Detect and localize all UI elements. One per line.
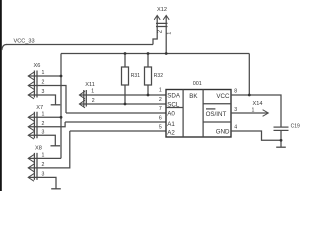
capacitor C19 top plate [274,126,289,128]
svg-text:VCC: VCC [216,93,230,100]
svg-text:X11: X11 [85,82,95,88]
wire X8 pin1 to VCC vertical [28,157,61,159]
junction pin4-C19 ground [280,139,283,142]
wire X8 pin2 to A2 [28,131,70,168]
connector X7 arrow pin3 [28,132,34,140]
svg-text:3: 3 [42,129,45,135]
junction rail2-R32 [147,52,150,55]
svg-text:VCC_33: VCC_33 [14,39,35,45]
wire X7 pin3 to ground [28,135,55,145]
wire VCC vertical distribution [60,54,62,159]
junction SCL-R31 [124,103,127,106]
svg-text:X6: X6 [34,63,41,69]
wire X6 pin2 to A0 [28,86,66,114]
svg-text:7: 7 [159,106,162,112]
connector X7 body bars [34,112,37,139]
connector X8 body bars [34,153,37,180]
svg-text:A0: A0 [167,111,175,118]
svg-text:3: 3 [234,107,237,113]
svg-text:001: 001 [193,81,202,87]
svg-text:R32: R32 [154,73,163,79]
wire X7 pin1 to VCC vertical [28,116,61,118]
svg-text:1: 1 [159,88,162,94]
connector X12 arrow pin1 [163,15,169,19]
wire VCC_33 rail [6,44,153,46]
svg-text:2: 2 [42,121,45,127]
wire VCC rail2 right drop to pin8 [248,54,250,96]
ground symbol 4 [276,146,286,148]
svg-text:8: 8 [234,89,237,95]
IC U1 internal dividers [166,90,231,138]
wire A2 to IC pin5 [70,130,167,132]
resistor R32 [145,67,152,85]
wire C19 bottom lead [280,130,282,147]
connector X8 arrow pin3 [28,174,34,182]
svg-text:SDA: SDA [167,92,181,99]
wire A0 to IC pin7 [66,112,167,114]
wire IC pin3 to X14 [231,112,268,114]
connector X6 arrow pin1 [28,72,34,80]
svg-text:X7: X7 [36,105,43,111]
svg-text:1: 1 [252,107,255,113]
junction rail2-X12pin1 [165,52,168,55]
connector X11 body bars [84,90,87,107]
wire X12 pin1 to VCC rail2 [165,16,167,54]
svg-text:R31: R31 [131,73,140,79]
wire jog rail to X12 pin2 [153,16,157,45]
svg-text:OS/INT: OS/INT [206,111,227,118]
svg-text:2: 2 [92,98,95,104]
svg-text:A2: A2 [167,129,175,136]
wire IC pin8 to C19 top [231,95,281,127]
connector X11 arrow pin1 [79,91,85,99]
wire R32 top lead [147,54,149,68]
svg-text:GND: GND [216,129,230,136]
wire X6 pin3 to ground [28,95,55,105]
junction pin8-rail2 drop [248,94,251,97]
ground symbol 1 [51,104,61,106]
svg-text:2: 2 [42,80,45,86]
svg-text:1: 1 [91,88,94,94]
connector X6 arrow pin3 [28,91,34,99]
svg-text:2: 2 [42,162,45,168]
svg-text:3: 3 [42,89,45,95]
IC U1 body [166,90,231,138]
wire A1 to IC pin6 [65,121,166,123]
wire SDA X11 pin1 to IC pin1 [79,94,166,96]
junction VCC-X6pin1 [60,75,63,78]
connector X12 body bars [156,23,168,26]
wire SCL X11 pin2 to IC pin2 [79,103,166,105]
junction VCC-X7pin1 [60,116,63,119]
svg-text:A1: A1 [167,121,175,128]
ground symbol 2 [51,145,61,147]
junction SDA-R32 [147,94,150,97]
svg-text:5: 5 [159,125,162,131]
svg-text:1: 1 [167,32,173,35]
svg-text:2: 2 [159,97,162,103]
svg-text:4: 4 [234,125,237,131]
IC U1 OS overline [206,108,215,110]
junction rail2-R31 [124,52,127,55]
connector X11 arrow pin2 [79,100,85,108]
wire VCC rail2 [61,53,249,55]
wire R31 bottom lead [124,85,126,104]
svg-text:1: 1 [42,111,45,117]
connector X8 arrow pin1 [28,155,34,163]
connector X14 arrowhead [263,110,269,117]
resistor R31 [122,67,129,85]
svg-text:6: 6 [159,116,162,122]
svg-text:C19: C19 [291,123,300,129]
svg-text:1: 1 [42,152,45,158]
wire X7 pin2 to A1 [28,122,65,127]
svg-text:1: 1 [42,70,45,76]
connector X7 arrow pin1 [28,114,34,122]
wire VCC_33 rail hook [2,45,7,51]
connector X6 arrow pin2 [28,82,34,90]
wire R32 bottom lead [147,85,149,95]
connector X8 arrow pin2 [28,164,34,172]
wire IC pin4 to ground [231,131,281,140]
svg-text:X12: X12 [157,7,167,13]
capacitor C19 bottom plate [274,129,289,131]
wire X8 pin3 to ground [28,177,56,188]
svg-text:BK: BK [189,93,198,100]
svg-text:X8: X8 [35,146,42,152]
svg-text:SCL: SCL [167,101,180,108]
ground symbol 3 [51,188,61,190]
svg-text:3: 3 [42,171,45,177]
svg-text:X14: X14 [253,101,263,107]
connector X6 body bars [34,71,37,98]
connector X12 arrow pin2 [154,15,160,19]
connector X7 arrow pin2 [28,123,34,131]
wire X6 pin1 to VCC vertical [28,75,61,77]
wire R31 top lead [124,54,126,68]
